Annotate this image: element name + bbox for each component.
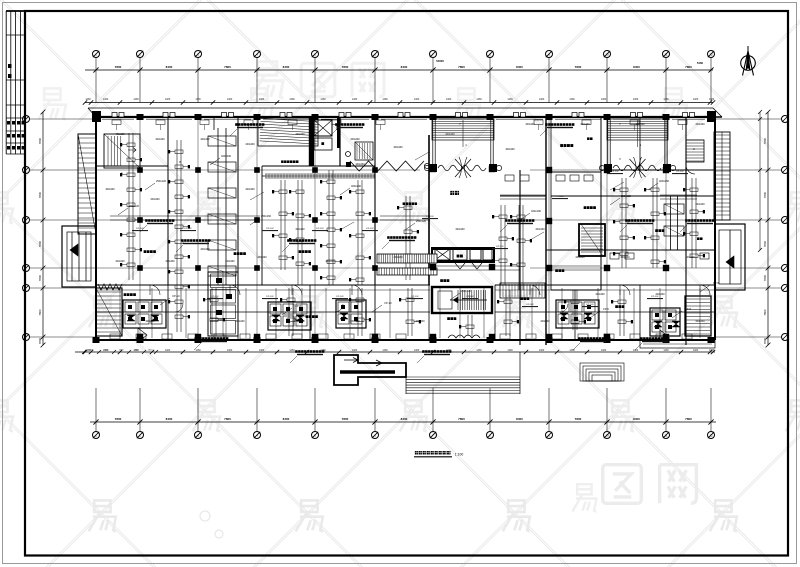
svg-text:400x200: 400x200 bbox=[295, 320, 305, 323]
svg-text:250x120: 250x120 bbox=[461, 289, 472, 293]
svg-text:1300: 1300 bbox=[148, 350, 154, 352]
svg-text:1480: 1480 bbox=[103, 98, 109, 101]
svg-text:1480: 1480 bbox=[320, 98, 326, 101]
svg-text:1480: 1480 bbox=[507, 349, 513, 352]
svg-text:7800: 7800 bbox=[763, 274, 767, 281]
svg-text:1:100: 1:100 bbox=[455, 453, 464, 457]
svg-text:FP-102: FP-102 bbox=[676, 171, 684, 173]
svg-text:7800: 7800 bbox=[685, 417, 692, 421]
svg-text:400x200: 400x200 bbox=[350, 320, 360, 323]
svg-text:FP-102: FP-102 bbox=[496, 246, 504, 248]
svg-text:FP-6: FP-6 bbox=[603, 307, 609, 311]
svg-text:400x200: 400x200 bbox=[245, 188, 255, 191]
svg-text:7800: 7800 bbox=[115, 65, 122, 69]
svg-text:7800: 7800 bbox=[763, 309, 767, 316]
svg-text:8400: 8400 bbox=[401, 65, 408, 69]
svg-text:FP-102: FP-102 bbox=[136, 228, 144, 230]
svg-text:11: 11 bbox=[664, 434, 667, 438]
svg-text:FP-6: FP-6 bbox=[713, 281, 719, 285]
svg-text:400x200: 400x200 bbox=[575, 256, 585, 259]
svg-text:1480: 1480 bbox=[133, 98, 139, 101]
svg-text:400x200: 400x200 bbox=[200, 248, 210, 251]
svg-text:7800: 7800 bbox=[224, 65, 231, 69]
svg-text:FP-102: FP-102 bbox=[526, 304, 534, 306]
svg-text:400x200: 400x200 bbox=[257, 256, 267, 259]
svg-text:400x200: 400x200 bbox=[155, 138, 165, 141]
svg-text:FP-102: FP-102 bbox=[651, 296, 659, 298]
svg-text:FP-10: FP-10 bbox=[384, 301, 392, 305]
svg-text:1300: 1300 bbox=[134, 350, 140, 352]
svg-text:10: 10 bbox=[605, 434, 609, 438]
svg-text:400x200: 400x200 bbox=[165, 260, 175, 263]
svg-text:1480: 1480 bbox=[382, 98, 388, 101]
svg-text:7800: 7800 bbox=[38, 137, 42, 144]
svg-text:1480: 1480 bbox=[709, 349, 715, 352]
svg-text:FP-102: FP-102 bbox=[611, 171, 619, 173]
svg-text:1480: 1480 bbox=[165, 98, 171, 101]
svg-text:400x200: 400x200 bbox=[115, 133, 125, 136]
svg-text:1480: 1480 bbox=[476, 349, 482, 352]
svg-text:320x160: 320x160 bbox=[531, 209, 542, 213]
svg-text:7800: 7800 bbox=[575, 65, 582, 69]
svg-text:400x200: 400x200 bbox=[695, 123, 705, 126]
svg-text:400x200: 400x200 bbox=[695, 320, 705, 323]
svg-text:FP-102: FP-102 bbox=[336, 296, 344, 298]
svg-text:7800: 7800 bbox=[38, 240, 42, 247]
svg-text:1480: 1480 bbox=[663, 98, 669, 101]
svg-text:1480: 1480 bbox=[352, 98, 358, 101]
svg-text:7800: 7800 bbox=[458, 65, 465, 69]
svg-text:1480: 1480 bbox=[85, 98, 91, 101]
svg-text:1480: 1480 bbox=[446, 98, 452, 101]
svg-text:7800: 7800 bbox=[38, 309, 42, 316]
svg-text:400x200: 400x200 bbox=[115, 260, 125, 263]
svg-text:400x200: 400x200 bbox=[350, 138, 360, 141]
svg-text:400x200: 400x200 bbox=[245, 143, 255, 146]
svg-text:7800: 7800 bbox=[342, 65, 349, 69]
svg-text:400x200: 400x200 bbox=[525, 123, 535, 126]
svg-text:1480: 1480 bbox=[569, 349, 575, 352]
svg-text:1480: 1480 bbox=[693, 349, 699, 352]
svg-text:FP-102: FP-102 bbox=[266, 296, 274, 298]
svg-text:250x160: 250x160 bbox=[261, 214, 272, 218]
svg-text:V: V bbox=[619, 157, 621, 161]
svg-text:400x200: 400x200 bbox=[150, 198, 160, 201]
svg-text:54600: 54600 bbox=[436, 59, 444, 63]
svg-text:1480: 1480 bbox=[539, 98, 545, 101]
svg-text:400x200: 400x200 bbox=[355, 163, 365, 166]
svg-text:1480: 1480 bbox=[165, 349, 171, 352]
svg-text:7800: 7800 bbox=[685, 65, 692, 69]
svg-text:11: 11 bbox=[664, 53, 667, 57]
svg-text:FP-102: FP-102 bbox=[556, 196, 564, 198]
svg-text:400x200: 400x200 bbox=[535, 228, 545, 231]
svg-text:1480: 1480 bbox=[693, 98, 699, 101]
svg-text:400x200: 400x200 bbox=[105, 188, 115, 191]
svg-text:1300: 1300 bbox=[104, 350, 110, 352]
svg-text:400x200: 400x200 bbox=[393, 146, 403, 149]
svg-text:8400: 8400 bbox=[283, 417, 290, 421]
svg-text:400x200: 400x200 bbox=[393, 256, 403, 259]
svg-text:400x250: 400x250 bbox=[659, 179, 670, 183]
svg-text:8400: 8400 bbox=[166, 65, 173, 69]
svg-text:1480: 1480 bbox=[569, 98, 575, 101]
svg-text:400x200: 400x200 bbox=[505, 148, 515, 151]
svg-text:250x120: 250x120 bbox=[129, 204, 140, 208]
svg-text:10: 10 bbox=[605, 53, 609, 57]
svg-text:8400: 8400 bbox=[633, 417, 640, 421]
svg-text:FP-102: FP-102 bbox=[411, 296, 419, 298]
svg-text:250x120: 250x120 bbox=[156, 179, 167, 183]
svg-text:400x200: 400x200 bbox=[145, 320, 155, 323]
svg-text:12: 12 bbox=[709, 53, 713, 57]
svg-text:1480: 1480 bbox=[289, 98, 295, 101]
svg-text:7800: 7800 bbox=[224, 417, 231, 421]
svg-text:400x200: 400x200 bbox=[295, 228, 305, 231]
svg-text:1480: 1480 bbox=[259, 349, 265, 352]
svg-text:400x200: 400x200 bbox=[200, 138, 210, 141]
svg-text:400x200: 400x200 bbox=[415, 320, 425, 323]
svg-text:400x200: 400x200 bbox=[325, 260, 335, 263]
svg-text:400x200: 400x200 bbox=[635, 123, 645, 126]
svg-text:FP-102: FP-102 bbox=[426, 216, 434, 218]
svg-text:8400: 8400 bbox=[166, 417, 173, 421]
svg-text:250x120: 250x120 bbox=[416, 219, 427, 223]
svg-text:1480: 1480 bbox=[289, 349, 295, 352]
svg-text:FP-102: FP-102 bbox=[316, 228, 324, 230]
svg-text:7800: 7800 bbox=[38, 337, 42, 344]
svg-text:1480: 1480 bbox=[601, 349, 607, 352]
svg-text:FP-102: FP-102 bbox=[266, 228, 274, 230]
svg-text:400x200: 400x200 bbox=[685, 256, 695, 259]
svg-text:1480: 1480 bbox=[507, 98, 513, 101]
svg-text:1480: 1480 bbox=[195, 349, 201, 352]
svg-text:7800: 7800 bbox=[763, 191, 767, 198]
svg-text:1480: 1480 bbox=[195, 98, 201, 101]
svg-text:400x200: 400x200 bbox=[695, 203, 705, 206]
svg-text:7800: 7800 bbox=[763, 337, 767, 344]
svg-text:FP-102: FP-102 bbox=[466, 296, 474, 298]
svg-text:320x200: 320x200 bbox=[221, 154, 232, 158]
svg-text:1480: 1480 bbox=[227, 349, 233, 352]
svg-text:400x200: 400x200 bbox=[445, 133, 455, 136]
svg-text:FP-102: FP-102 bbox=[366, 228, 374, 230]
svg-text:FP-102: FP-102 bbox=[184, 228, 192, 230]
svg-text:1480: 1480 bbox=[476, 98, 482, 101]
svg-text:8400: 8400 bbox=[516, 65, 523, 69]
svg-text:1480: 1480 bbox=[227, 98, 233, 101]
svg-text:1480: 1480 bbox=[414, 349, 420, 352]
svg-text:8400: 8400 bbox=[516, 417, 523, 421]
svg-text:7800: 7800 bbox=[763, 240, 767, 247]
svg-text:400x200: 400x200 bbox=[595, 293, 605, 296]
svg-text:1480: 1480 bbox=[633, 98, 639, 101]
svg-text:400x200: 400x200 bbox=[295, 133, 305, 136]
svg-text:FP-10: FP-10 bbox=[172, 294, 180, 298]
svg-text:7800: 7800 bbox=[458, 417, 465, 421]
svg-text:FP-102: FP-102 bbox=[586, 304, 594, 306]
svg-text:8400: 8400 bbox=[633, 65, 640, 69]
svg-text:1480: 1480 bbox=[352, 349, 358, 352]
svg-text:400x200: 400x200 bbox=[620, 256, 630, 259]
svg-text:8400: 8400 bbox=[401, 417, 408, 421]
svg-text:7800: 7800 bbox=[575, 417, 582, 421]
svg-text:1480: 1480 bbox=[259, 98, 265, 101]
svg-text:250x120: 250x120 bbox=[621, 194, 632, 198]
svg-text:400x200: 400x200 bbox=[225, 260, 235, 263]
svg-text:1480: 1480 bbox=[601, 98, 607, 101]
svg-text:400x200: 400x200 bbox=[455, 228, 465, 231]
svg-text:1300: 1300 bbox=[89, 350, 95, 352]
svg-text:1480: 1480 bbox=[382, 349, 388, 352]
svg-text:7800: 7800 bbox=[763, 137, 767, 144]
svg-text:1480: 1480 bbox=[539, 349, 545, 352]
svg-text:FP-8: FP-8 bbox=[685, 307, 691, 311]
svg-text:7800: 7800 bbox=[38, 274, 42, 281]
svg-text:12: 12 bbox=[709, 434, 713, 438]
svg-text:7800: 7800 bbox=[38, 191, 42, 198]
svg-text:1480: 1480 bbox=[709, 98, 715, 101]
svg-text:1300: 1300 bbox=[119, 350, 125, 352]
svg-text:7800: 7800 bbox=[115, 417, 122, 421]
svg-text:7800: 7800 bbox=[342, 417, 349, 421]
svg-text:400x200: 400x200 bbox=[235, 320, 245, 323]
svg-text:400x200: 400x200 bbox=[351, 184, 362, 188]
svg-text:5460: 5460 bbox=[697, 61, 704, 65]
svg-text:FP-102: FP-102 bbox=[211, 296, 219, 298]
svg-text:8400: 8400 bbox=[283, 65, 290, 69]
svg-text:400x200: 400x200 bbox=[540, 320, 550, 323]
svg-text:1480: 1480 bbox=[414, 98, 420, 101]
svg-text:1480: 1480 bbox=[663, 349, 669, 352]
svg-text:400x200: 400x200 bbox=[580, 123, 590, 126]
